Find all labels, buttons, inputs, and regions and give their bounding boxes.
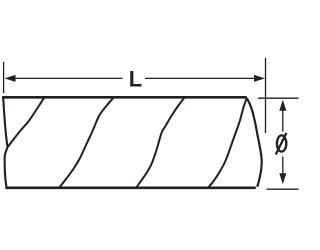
svg-text:L: L	[129, 67, 142, 92]
